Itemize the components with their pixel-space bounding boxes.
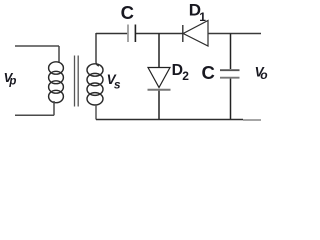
diode D2 cathode bar <box>148 89 171 91</box>
svg-text:C: C <box>121 2 134 23</box>
wire capacitor C2 bottom lead <box>230 79 232 120</box>
capacitor C2 bottom plate <box>220 77 240 79</box>
svg-text:o: o <box>260 68 267 82</box>
diode D1 triangle <box>183 21 208 47</box>
wire top: capacitor C1 to diode D1 <box>136 33 183 35</box>
wire primary top lead <box>58 46 60 63</box>
wire top: diode D1 to output <box>208 33 261 35</box>
diode D1 cathode bar <box>182 25 184 42</box>
wire diode D2 top lead <box>158 34 160 68</box>
svg-text:s: s <box>114 77 121 91</box>
wire primary top stub <box>15 45 59 47</box>
wire bottom rail <box>96 119 243 121</box>
inductor primary winding (transformer) <box>49 62 64 103</box>
svg-text:p: p <box>8 76 16 88</box>
capacitor C1 right plate <box>134 25 136 43</box>
transformer core bars <box>75 56 79 107</box>
capacitor C1 left plate <box>127 25 129 43</box>
svg-text:2: 2 <box>182 69 189 83</box>
wire bottom rail gray end <box>243 119 261 121</box>
wire primary bottom stub <box>15 114 54 116</box>
wire diode D2 bottom lead <box>158 91 160 120</box>
wire top: secondary to capacitor C1 <box>96 33 127 35</box>
wire secondary bottom lead <box>95 104 97 120</box>
wire secondary top lead <box>96 33 99 66</box>
wire primary bottom lead <box>53 101 55 115</box>
diode D2 triangle <box>148 68 170 88</box>
svg-text:1: 1 <box>199 10 206 24</box>
capacitor C2 top plate <box>220 69 240 71</box>
inductor secondary winding (transformer) <box>87 64 103 105</box>
svg-text:C: C <box>202 62 215 83</box>
wire capacitor C2 top lead <box>230 34 232 70</box>
